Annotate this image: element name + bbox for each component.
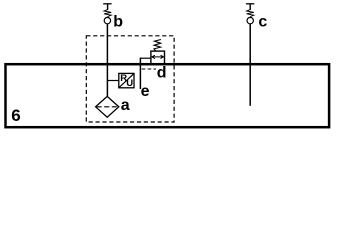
valve d arrow shaft xyxy=(152,56,163,58)
svg-text:U: U xyxy=(126,78,133,89)
tank block 6 xyxy=(6,64,330,127)
filter a mesh (dashed) xyxy=(97,106,118,108)
test point c: top bar xyxy=(246,3,254,5)
drain wire e (vertical) xyxy=(139,58,141,89)
svg-text:a: a xyxy=(121,97,130,114)
valve d arrowhead right xyxy=(161,55,164,58)
valve d arrowhead left xyxy=(152,55,155,58)
wire b down to filter xyxy=(106,24,108,97)
transducer R/U box xyxy=(119,73,134,87)
dashed enclosure xyxy=(86,36,174,122)
svg-text:d: d xyxy=(157,65,167,82)
svg-text:6: 6 xyxy=(11,106,20,125)
filter a (diamond) xyxy=(96,96,119,117)
valve d body xyxy=(151,51,165,64)
svg-text:b: b xyxy=(113,14,123,31)
stub wire into valve d xyxy=(140,57,151,59)
wire c down into tank xyxy=(249,24,251,106)
test point b: spring xyxy=(107,4,109,10)
valve d spring xyxy=(154,40,161,51)
svg-text:c: c xyxy=(258,13,267,30)
test point c: spring xyxy=(249,4,251,10)
test point b: check ball circle xyxy=(104,17,110,23)
wire to transducer xyxy=(107,80,118,82)
test point c: check ball circle xyxy=(247,17,253,23)
leader line for d (dashed) xyxy=(142,68,156,70)
transducer diagonal xyxy=(119,74,134,88)
svg-text:e: e xyxy=(141,83,150,100)
test point b: top bar xyxy=(103,3,111,5)
